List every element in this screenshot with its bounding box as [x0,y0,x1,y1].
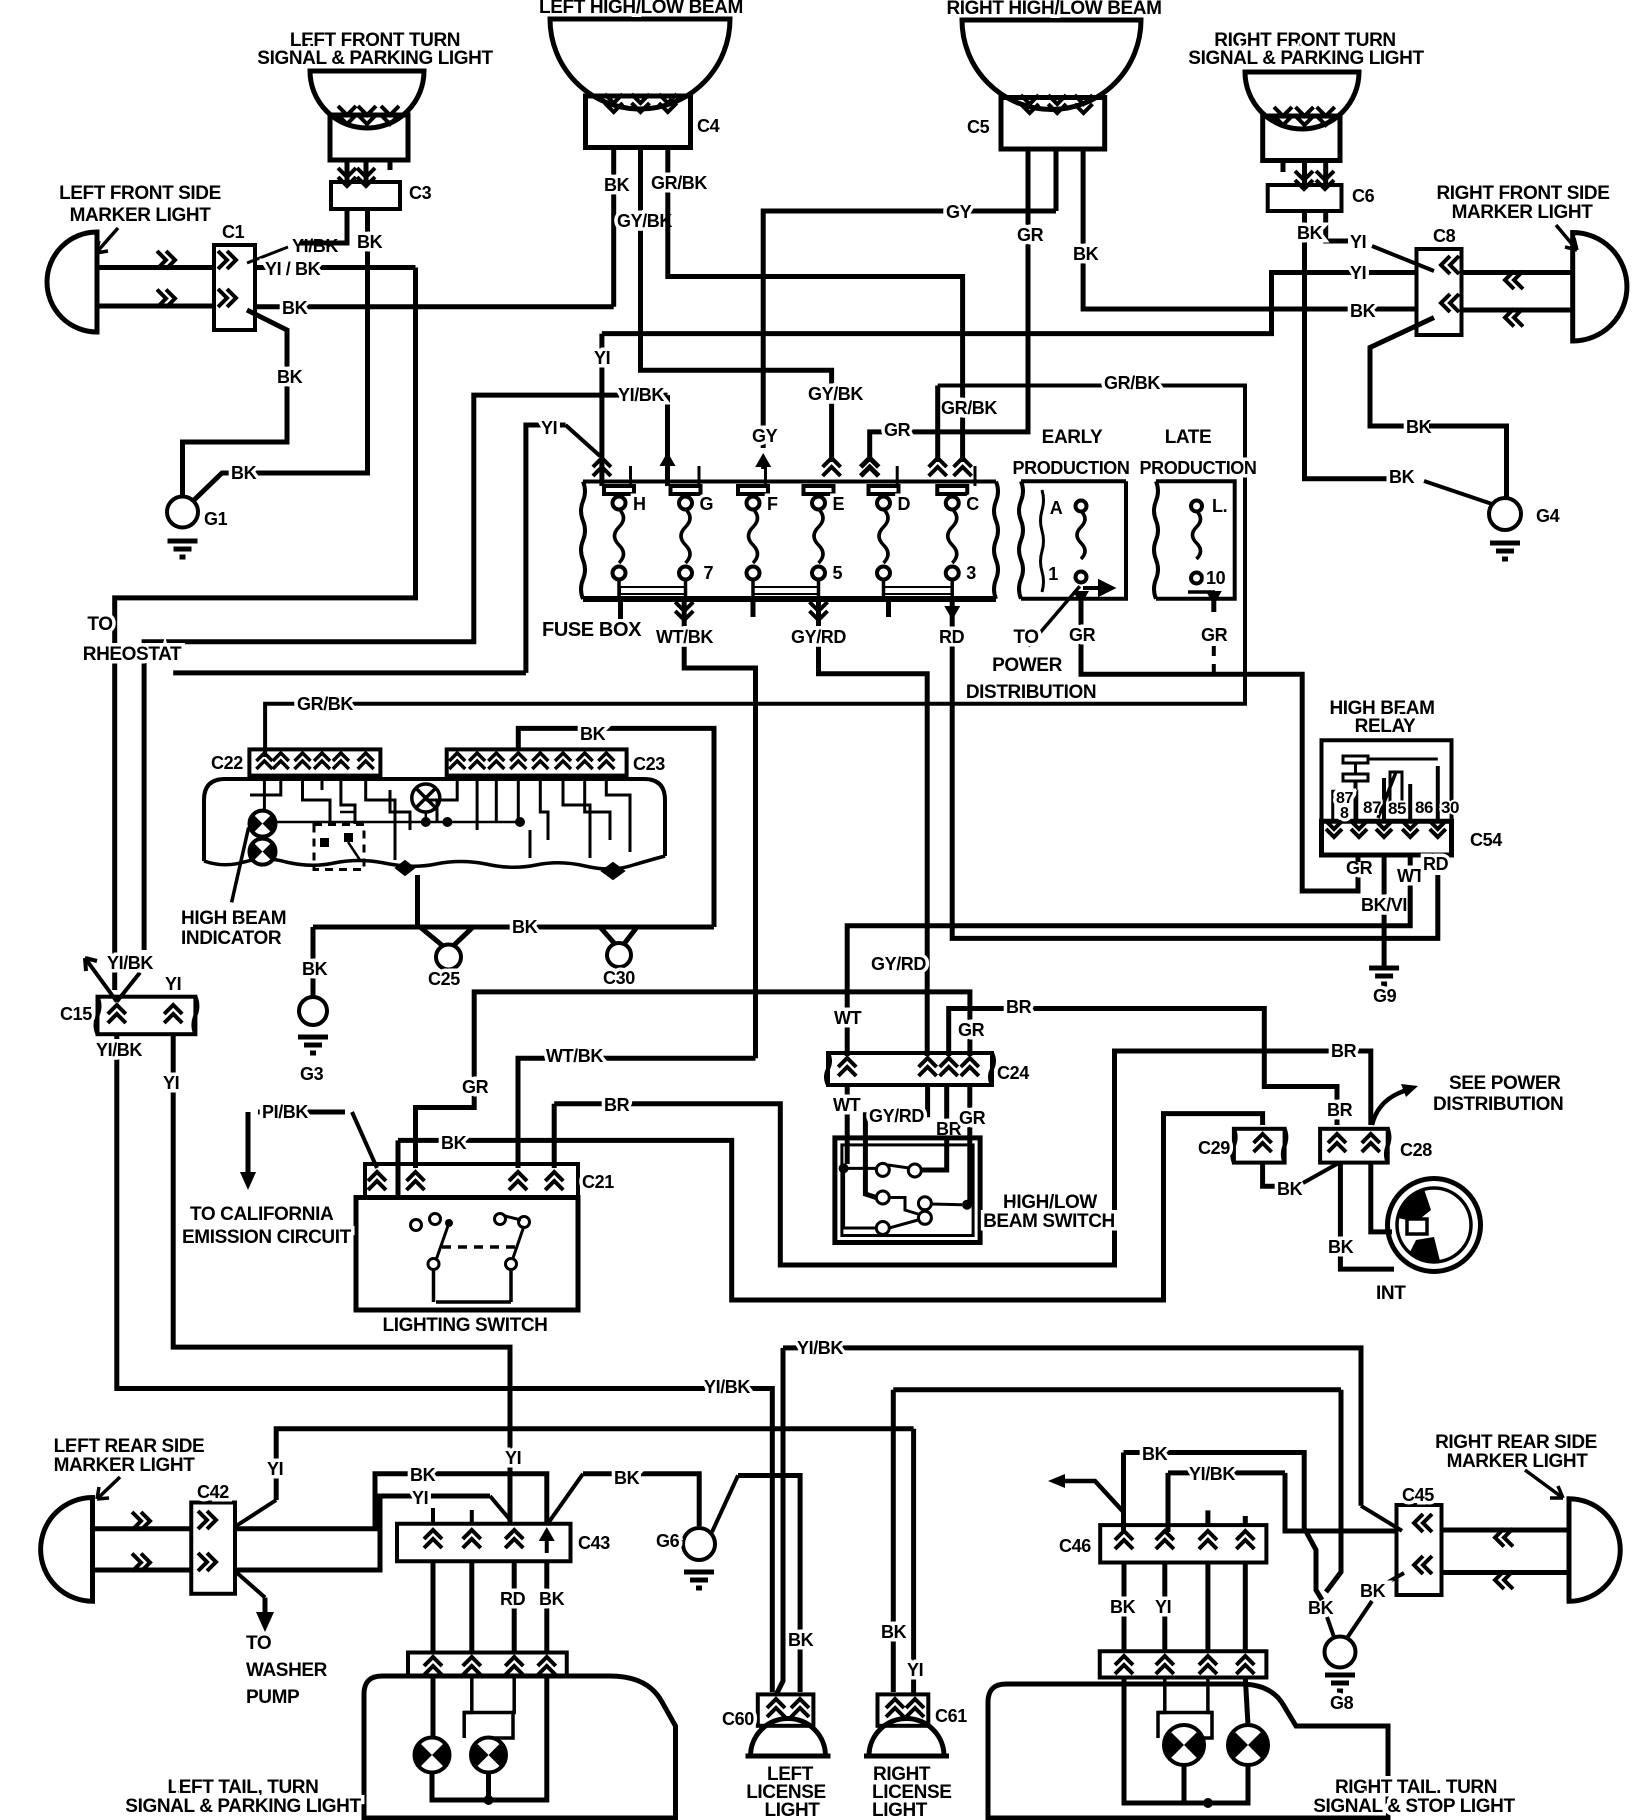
svg-text:BK: BK [539,1589,565,1609]
svg-text:RD: RD [500,1589,526,1609]
wire: C6 left pin BK down, right, to G4 [1305,211,1387,479]
lamp: right license light [869,1719,944,1757]
svg-text:YI/BK: YI/BK [704,1377,750,1397]
PI/BK wire and TO CALIFORNIA EMISSION CIRCUIT [246,1112,251,1180]
svg-text:GY/RD: GY/RD [791,627,846,647]
svg-text:INT: INT [1376,1283,1406,1304]
svg-text:BK: BK [604,175,630,195]
svg-text:C28: C28 [1400,1140,1432,1160]
svg-text:RIGHT FRONT SIDE: RIGHT FRONT SIDE [1436,183,1609,204]
svg-text:3: 3 [966,563,976,583]
svg-text:GY/BK: GY/BK [617,211,672,231]
svg-text:RD: RD [939,627,965,647]
connector C46 (right tail upper strip) [1100,1525,1266,1562]
svg-text:YI/BK: YI/BK [292,236,338,256]
svg-text:YI: YI [1350,263,1366,283]
svg-text:BK: BK [1308,1598,1334,1618]
bus BK with C25/C30 [313,925,714,930]
fuse L [1191,501,1202,512]
svg-text:GR/BK: GR/BK [297,694,353,714]
wire: C28 pin2 to INT [1371,1163,1392,1232]
wire: YI from C15 pin2 region [173,670,526,675]
wire: C8 pin2 BK diagonal down to G4 [1370,318,1434,427]
spare pin stubs on fuse terminals [629,466,632,486]
relay coil [1343,756,1368,763]
lower connector strip right tail [1100,1651,1267,1677]
connector C42 [191,1503,235,1594]
svg-text:87: 87 [1363,798,1381,817]
cluster internal wiring (simplified) [273,821,520,824]
svg-text:YI: YI [267,1459,283,1479]
SEE POWER DISTRIBUTION arrow [1372,1091,1404,1125]
pointer: high beam indicator [232,828,249,903]
wire: C5 pin1 GR to fuse D [870,149,1028,462]
svg-text:C45: C45 [1402,1485,1434,1505]
svg-text:GY/RD: GY/RD [869,1106,924,1126]
svg-text:BK: BK [1389,467,1415,487]
svg-text:YI/BK: YI/BK [797,1338,843,1358]
svg-text:C5: C5 [967,117,990,137]
svg-text:GR: GR [1201,625,1228,645]
fuse G [671,486,701,494]
svg-text:BEAM SWITCH: BEAM SWITCH [983,1211,1115,1232]
svg-text:C43: C43 [578,1533,610,1553]
svg-text:BK: BK [614,1468,640,1488]
svg-text:SIGNAL & PARKING LIGHT: SIGNAL & PARKING LIGHT [125,1796,361,1817]
svg-text:BK: BK [357,232,383,252]
svg-text:HIGH BEAM: HIGH BEAM [181,908,286,929]
wire: G6 to C60 pin2 (BK) [712,1476,738,1533]
connector C61 [878,1694,929,1725]
svg-text:EMISSION CIRCUIT: EMISSION CIRCUIT [182,1227,352,1248]
right tail light box [988,1684,1388,1818]
svg-text:C15: C15 [60,1004,92,1024]
wire: BK long line to C46 pin1 and G8 [1121,1453,1126,1533]
svg-text:YI: YI [1350,232,1366,252]
fuse E [804,486,834,494]
svg-text:G4: G4 [1536,506,1560,526]
ground G4 [1489,498,1521,530]
svg-text:RHEOSTAT: RHEOSTAT [83,644,182,665]
svg-text:LEFT FRONT SIDE: LEFT FRONT SIDE [59,183,221,204]
svg-text:BK: BK [1328,1237,1354,1257]
wire: YI/BK horizontal into C45 pin1 [1285,1473,1397,1531]
svg-text:BK: BK [1297,223,1323,243]
svg-text:BK: BK [302,959,328,979]
svg-text:YI: YI [165,974,181,994]
svg-text:LEFT HIGH/LOW BEAM: LEFT HIGH/LOW BEAM [539,0,743,18]
svg-text:MARKER LIGHT: MARKER LIGHT [70,205,212,226]
svg-text:LATE: LATE [1165,427,1212,448]
wire: C45 pin2 BK to G8 [1387,1573,1405,1583]
wire: C4 pin1 BK down-left [611,148,616,307]
svg-text:86: 86 [1415,798,1433,817]
svg-text:C24: C24 [997,1063,1029,1083]
svg-text:RIGHT REAR SIDE: RIGHT REAR SIDE [1435,1432,1597,1453]
svg-text:BK: BK [580,724,606,744]
svg-text:G9: G9 [1373,986,1397,1006]
arrow: continues left from C46 pin1 [1062,1481,1124,1512]
connector C6 [1268,185,1342,211]
svg-text:PRODUCTION: PRODUCTION [1140,458,1257,478]
svg-text:EARLY: EARLY [1042,427,1103,448]
svg-text:E: E [833,494,845,514]
ground G1 [167,497,198,528]
svg-text:GR: GR [462,1077,489,1097]
lighting switch box [356,1198,578,1311]
svg-text:C: C [966,494,979,514]
svg-text:7: 7 [704,563,714,583]
wire: YI/BK long east line to C60 pin1 and C45 [776,1348,783,1695]
svg-text:YI: YI [541,418,557,438]
svg-text:GR: GR [959,1108,986,1128]
svg-text:RIGHT HIGH/LOW BEAM: RIGHT HIGH/LOW BEAM [946,0,1161,19]
wire BK from east line down to G8 [1326,1390,1341,1592]
fuse D [869,486,899,494]
lamp: left front turn signal & parking light [310,71,424,128]
connector C1 [214,245,255,330]
svg-text:GR: GR [884,420,911,440]
left tail bulbs [431,1676,436,1738]
wire: C42 pin2 to YI line [235,1496,490,1570]
svg-text:GY/RD: GY/RD [871,954,926,974]
fuse box outline [583,480,996,484]
svg-text:5: 5 [833,563,843,583]
pointer line TO POWER DISTRIBUTION [1029,586,1080,646]
connector C45 [1397,1505,1442,1595]
connector C22 [249,749,380,775]
wire: BR from C24 pin3 to C28 [949,1009,1337,1126]
svg-text:C3: C3 [409,183,432,203]
svg-text:YI: YI [594,348,610,368]
TO RHEOSTAT arrow [85,958,117,1002]
svg-text:YI: YI [505,1448,521,1468]
wire: WT/BK to C21 pin3 [518,1058,756,1168]
YI/BK solid arrow into fuse G [660,452,676,472]
svg-text:TO: TO [1013,627,1038,648]
ground G9 [1369,968,1399,984]
svg-text:RD: RD [1423,854,1449,874]
lower connector strip left tail [408,1653,567,1677]
connector C15 [98,997,196,1034]
svg-text:C23: C23 [633,754,665,774]
svg-text:30: 30 [1441,798,1459,817]
svg-text:GR: GR [1069,625,1096,645]
svg-text:POWER: POWER [992,655,1062,676]
cluster internal stubs C23 [426,776,457,800]
svg-text:BK: BK [788,1630,814,1650]
svg-text:BK: BK [277,367,303,387]
wire: marker to C1 top (YI/BK) [97,265,214,270]
svg-text:C25: C25 [428,969,460,989]
svg-text:PI/BK: PI/BK [262,1102,308,1122]
bulb ground bus [432,1676,547,1800]
svg-text:DISTRIBUTION: DISTRIBUTION [966,682,1096,703]
svg-text:SIGNAL & STOP LIGHT: SIGNAL & STOP LIGHT [1313,1796,1515,1817]
wires C46 to lower strip [1122,1563,1127,1652]
svg-text:C29: C29 [1198,1138,1230,1158]
wire YI down to C61 pin2 [911,1429,916,1693]
svg-text:C60: C60 [722,1709,754,1729]
wire: BK below C29 to C28 pin1 [1263,1163,1276,1187]
svg-text:LIGHT: LIGHT [765,1800,821,1820]
cluster internal stubs C22 [263,776,266,810]
connector C21 [365,1164,578,1198]
connector C24 [828,1053,992,1085]
arrow: fuse A pin 1 to power distribution [1083,582,1112,594]
svg-text:WT: WT [833,1095,861,1115]
wires marker to C42 [93,1526,192,1531]
svg-text:H: H [633,494,646,514]
C54 pins [1326,821,1342,837]
label pointer YI/BK [247,247,288,263]
svg-text:BK: BK [1350,301,1376,321]
wire: BK from C23 pin4 to bus [518,728,714,927]
svg-text:GR: GR [1017,225,1044,245]
wire: BK east from C5 pin3 to C8 pin2 [1083,149,1416,309]
ground G6 [683,1528,715,1560]
wires below C24 into beam switch [845,1085,850,1164]
svg-text:C21: C21 [582,1172,614,1192]
connector C29 [1234,1129,1285,1163]
connector C8 [1417,249,1462,335]
svg-text:HIGH/LOW: HIGH/LOW [1003,1192,1097,1213]
svg-text:BK/VI: BK/VI [1361,895,1407,915]
connector C3 [331,182,400,209]
svg-text:WT: WT [1397,866,1425,886]
svg-text:BK: BK [512,917,538,937]
svg-text:C6: C6 [1352,186,1375,206]
svg-text:YI/BK: YI/BK [96,1040,142,1060]
fuse output A: GR down to relay [1073,591,1089,605]
pointer arrow to left marker [96,228,118,253]
wire: YI long line to C8 pin1 [602,273,1417,334]
svg-text:A: A [1050,498,1063,518]
lamp: left rear side marker [41,1498,93,1602]
svg-text:D: D [898,494,911,514]
wire: marker to C1 bottom (BK) [97,304,214,309]
svg-text:GR/BK: GR/BK [651,173,707,193]
svg-text:TO: TO [87,614,112,635]
wire: GY line to fuse F [763,211,1056,448]
fuse outputs: G WT/BK [675,602,693,620]
svg-text:BK: BK [1110,1597,1136,1617]
svg-text:G8: G8 [1330,1693,1354,1713]
wire: C8 to marker (BK) [1462,308,1573,313]
svg-text:BR: BR [1331,1041,1357,1061]
fuse outputs: stubs H,F,D [618,599,623,619]
ground G3 [311,927,316,997]
wire: BK east line to C61 pin1 [891,1390,896,1692]
wire: YI stub+diagonal into fuse H [526,425,566,673]
fuse outputs: C RD [944,604,960,620]
svg-text:BR: BR [1327,1100,1353,1120]
wire: BK from C43 pin4 to G6 [547,1474,583,1525]
svg-text:MARKER LIGHT: MARKER LIGHT [1447,1451,1589,1472]
right tail bulbs [1158,1678,1165,1739]
wire YI/BK from C1 to corner x415 [255,265,416,270]
wires: turn lamp pins to C6 [1302,161,1307,186]
svg-text:LIGHTING SWITCH: LIGHTING SWITCH [383,1315,548,1336]
svg-text:BK: BK [441,1133,467,1153]
wire: G1 to C3 right pin (BK) [193,209,368,501]
svg-text:MARKER LIGHT: MARKER LIGHT [54,1455,196,1476]
pointer arrow to right marker [1556,225,1577,250]
beam switch internals [839,1163,849,1173]
connector C28 [1320,1129,1388,1163]
relay pin 86 WT wire [847,855,1410,1056]
wire: BR from C21 pin4 [552,1104,557,1168]
YI chevron into fuse H [593,458,611,476]
switch internals [411,1220,422,1231]
cluster lamps left [250,811,276,837]
wire: BK from switch to C29 [396,1140,401,1195]
fuse bottom stubs [617,580,621,602]
wire: turn lamp to C3 (2 verticals) [345,160,350,182]
connector C23 [447,749,627,775]
svg-text:BK: BK [1277,1179,1303,1199]
cluster small bulbs on bottom [396,861,414,875]
svg-text:YI: YI [1155,1597,1171,1617]
wire: YI/BK big loop from C1 region [115,268,416,991]
high beam indicator lamp [412,784,440,812]
lamp: right front side marker light [1573,233,1627,342]
svg-text:85: 85 [1388,799,1406,818]
svg-text:G1: G1 [204,509,228,529]
wire: C5 pin2 to GY line [1054,149,1059,211]
relay connector C54 band [1322,821,1452,855]
wire: C4 pin3 GR/BK to fuse C [668,148,963,463]
svg-text:F: F [767,494,778,514]
svg-text:LEFT REAR SIDE: LEFT REAR SIDE [54,1436,205,1457]
svg-text:G: G [700,494,714,514]
lamp: left high/low beam [550,19,730,109]
svg-text:BR: BR [604,1095,630,1115]
svg-text:BK: BK [1406,417,1432,437]
relay contact [1436,766,1440,821]
connector C43 [431,1508,435,1525]
svg-text:YI/BK: YI/BK [107,953,153,973]
svg-text:C42: C42 [197,1482,229,1502]
svg-text:TO CALIFORNIA: TO CALIFORNIA [190,1204,334,1225]
svg-text:GY: GY [946,202,972,222]
svg-text:YI: YI [163,1073,179,1093]
connector C60 [758,1694,814,1725]
svg-text:WT/BK: WT/BK [656,627,713,647]
svg-text:BK: BK [1360,1581,1386,1601]
svg-text:DISTRIBUTION: DISTRIBUTION [1433,1094,1563,1115]
svg-text:C46: C46 [1059,1536,1091,1556]
svg-text:C30: C30 [603,968,635,988]
svg-text:BK: BK [231,463,257,483]
wire: C42 pin1 to BK line [235,1474,547,1529]
svg-text:FUSE BOX: FUSE BOX [542,619,642,641]
svg-text:YI / BK: YI / BK [265,259,321,279]
svg-text:BK: BK [881,1622,907,1642]
svg-text:GY/BK: GY/BK [808,384,863,404]
wire: C15 pin2 down YI to C43 [173,1034,510,1523]
wire: GR net C24pin4 - C21 pin2 [416,992,970,1168]
INT lamp [1388,1179,1481,1272]
svg-text:C8: C8 [1433,226,1456,246]
lamp: left front side marker light [47,232,97,332]
svg-text:L.: L. [1212,496,1227,516]
right bulb ground bus [1124,1678,1184,1804]
svg-text:RIGHT TAIL. TURN: RIGHT TAIL. TURN [1335,1777,1497,1798]
svg-text:INDICATOR: INDICATOR [181,928,282,949]
fuse output L: GR dashed [1206,591,1222,605]
lamp: right rear side marker [1569,1499,1620,1602]
relay pin labels [1333,791,1357,821]
fuse F [738,486,768,494]
svg-text:G3: G3 [300,1064,324,1084]
left tail light box [364,1676,676,1818]
wire: YI/BK from fuse G west [144,395,667,950]
svg-text:GY: GY [752,426,778,446]
svg-text:WT/BK: WT/BK [546,1046,603,1066]
svg-text:SIGNAL & PARKING LIGHT: SIGNAL & PARKING LIGHT [1188,48,1424,69]
svg-text:GR/BK: GR/BK [941,398,997,418]
svg-text:YI/BK: YI/BK [618,385,664,405]
svg-text:BK: BK [1073,244,1099,264]
wire: YI into C42 pin1 [276,1429,913,1500]
svg-text:C54: C54 [1470,830,1502,850]
connector C30 [600,927,615,944]
fuse A [1076,501,1087,512]
fuse outputs: E GY/RD [810,602,828,620]
svg-text:10: 10 [1206,568,1226,588]
lamp: right high/low beam [962,20,1141,110]
svg-text:GR/BK: GR/BK [1104,373,1160,393]
wire: C15 pin1 down YI/BK [117,1034,773,1692]
svg-text:BK: BK [282,298,308,318]
wire: C8 to marker (YI) [1462,270,1573,275]
svg-text:C1: C1 [222,222,245,242]
svg-text:WT: WT [834,1008,862,1028]
svg-text:C22: C22 [211,753,243,773]
thin bus bars in fuse box bottom [620,587,685,594]
svg-text:RELAY: RELAY [1355,716,1416,737]
fuse H [604,486,634,494]
svg-text:C4: C4 [697,116,720,136]
svg-text:SIGNAL & PARKING LIGHT: SIGNAL & PARKING LIGHT [257,48,493,69]
svg-text:BK: BK [1142,1444,1168,1464]
svg-text:TO: TO [246,1633,271,1654]
svg-text:BK: BK [410,1465,436,1485]
svg-text:G6: G6 [656,1531,680,1551]
wire: BK C28 pin1 to INT [1340,1163,1394,1270]
svg-text:1: 1 [1048,564,1058,584]
svg-text:YI: YI [412,1488,428,1508]
svg-text:8: 8 [1340,805,1349,822]
svg-text:PUMP: PUMP [246,1687,300,1708]
dashed box in cluster [314,825,364,870]
high/low beam switch box [835,1138,980,1243]
relay pin 85 BK/VI to G9 [1382,855,1387,966]
wire: GR/BK long horizontal to fuse C & relay loop [935,386,940,463]
wire: YI/BK line to C46 pin2 [1166,1473,1171,1532]
wire: C6 right pin YI to C8 pin1 [1326,211,1348,241]
svg-text:BR: BR [1006,997,1032,1017]
wire: C3 left pin YI/BK down to label [300,209,347,243]
lamp: left license light [751,1719,826,1757]
svg-text:LEFT TAIL, TURN: LEFT TAIL, TURN [168,1777,319,1798]
svg-text:SEE POWER: SEE POWER [1449,1073,1561,1094]
wire: C42 pin2 to washer pump [236,1572,265,1598]
svg-text:YI/BK: YI/BK [1189,1464,1235,1484]
ground G8 [1325,1637,1356,1668]
cluster outline [204,779,665,861]
